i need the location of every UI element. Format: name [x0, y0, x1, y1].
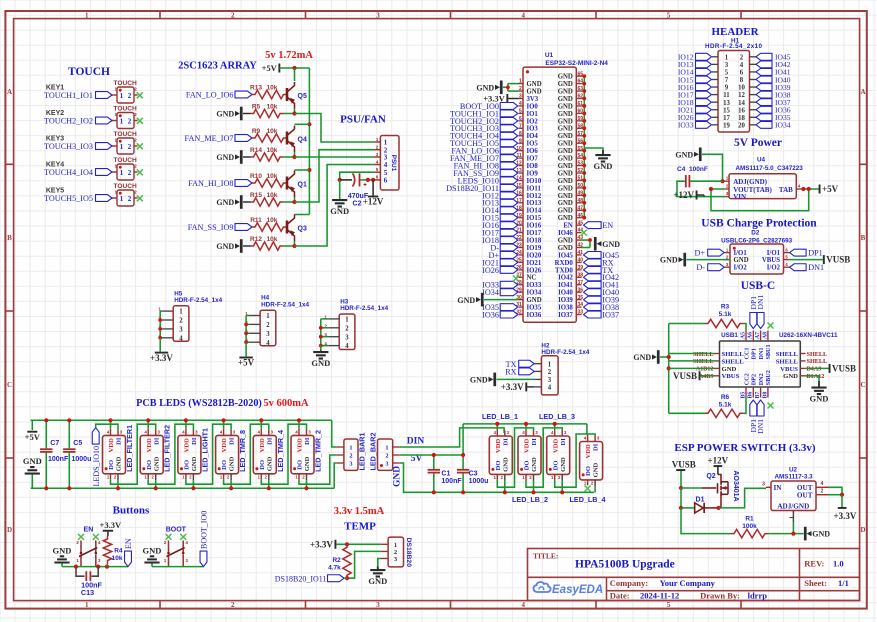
- net flag DN1 (D2 right): [790, 264, 807, 271]
- svg-text:U4: U4: [757, 157, 766, 164]
- svg-text:Sheet:: Sheet:: [804, 578, 827, 588]
- svg-text:PSU1: PSU1: [390, 155, 397, 172]
- wire +3.3V to DS18B20 pin1: [336, 543, 381, 545]
- no-connect X LED_LB_4 DO: [585, 486, 591, 492]
- svg-text:GND: GND: [558, 245, 573, 252]
- junction bus to Q4 collector: [307, 122, 311, 126]
- wire DO LED_TMR_4 to DI LED_TMR_2: [261, 424, 306, 484]
- svg-text:+3.3V: +3.3V: [310, 539, 333, 549]
- wire R5 to emitter: [283, 113, 295, 115]
- svg-text:A7: A7: [755, 332, 761, 339]
- wire DIN: [400, 428, 504, 447]
- svg-text:1: 1: [120, 92, 124, 100]
- svg-text:+3.3V: +3.3V: [150, 353, 173, 363]
- svg-text:1: 1: [85, 601, 89, 609]
- svg-text:1: 1: [266, 313, 270, 320]
- svg-text:8: 8: [519, 131, 522, 137]
- svg-text:C13: C13: [81, 588, 94, 597]
- svg-text:IO21: IO21: [527, 260, 542, 267]
- svg-text:TOUCH3_IO3: TOUCH3_IO3: [44, 142, 93, 151]
- svg-text:10k: 10k: [267, 236, 278, 243]
- junction emitter Q1: [292, 200, 296, 204]
- wire VDD LED_FILTER2 to +5V rail: [147, 420, 149, 429]
- svg-text:DO: DO: [259, 460, 266, 470]
- svg-text:5: 5: [667, 601, 671, 609]
- svg-text:2: 2: [345, 325, 349, 332]
- svg-text:IO26: IO26: [527, 267, 542, 274]
- svg-text:HDR-F-2.54_1x4: HDR-F-2.54_1x4: [174, 297, 222, 304]
- svg-text:C5: C5: [73, 440, 82, 447]
- svg-text:3: 3: [385, 460, 388, 467]
- svg-text:LED_BAR1: LED_BAR1: [358, 433, 367, 471]
- svg-text:3: 3: [266, 331, 270, 338]
- svg-text:3: 3: [519, 94, 522, 100]
- svg-text:3: 3: [376, 601, 380, 609]
- svg-text:+12V: +12V: [673, 190, 694, 200]
- svg-text:IO39: IO39: [558, 297, 573, 304]
- transistor Q1 2SC1623 NPN: [286, 177, 289, 190]
- svg-text:D: D: [860, 526, 865, 534]
- svg-text:EN: EN: [602, 221, 613, 230]
- power VUSB (D2): [823, 255, 825, 264]
- svg-text:REV:: REV:: [804, 559, 824, 569]
- svg-text:SHELL: SHELL: [693, 358, 714, 365]
- svg-text:1.0: 1.0: [833, 559, 844, 569]
- svg-text:D2: D2: [751, 230, 760, 237]
- svg-text:GND: GND: [527, 88, 542, 95]
- wire B1A12 to ground: [806, 376, 820, 381]
- svg-text:1: 1: [548, 361, 552, 368]
- wire bus to A1B12 GND pin: [667, 366, 671, 370]
- svg-text:VDD: VDD: [259, 438, 266, 453]
- svg-text:1: 1: [120, 117, 124, 125]
- wire R15 to emitter: [283, 201, 295, 203]
- svg-text:DN1: DN1: [808, 263, 824, 272]
- svg-text:EN: EN: [124, 538, 133, 549]
- svg-text:10: 10: [738, 85, 745, 92]
- LED LED_LIGHT1 WS2812B-2020: [178, 435, 201, 473]
- svg-text:DP1: DP1: [808, 249, 823, 258]
- svg-text:39: 39: [578, 265, 584, 271]
- svg-text:LED_LB_4: LED_LB_4: [570, 495, 606, 504]
- svg-text:B: B: [7, 234, 12, 242]
- capacitor C7 100nF: [45, 420, 47, 448]
- no-connect X BOOT top pins: [166, 534, 172, 540]
- LED LED_TMR_4 WS2812B-2020: [253, 435, 276, 473]
- svg-text:DS18B20: DS18B20: [405, 538, 412, 568]
- svg-text:GND: GND: [393, 466, 403, 487]
- net flag IO38 (U1 right): [584, 304, 602, 311]
- svg-text:SHELL: SHELL: [807, 358, 828, 365]
- svg-text:2: 2: [385, 452, 388, 459]
- svg-text:USB1: USB1: [721, 332, 738, 339]
- wire GND bottom rail (LED chain): [31, 487, 335, 489]
- svg-text:Buttons: Buttons: [113, 505, 150, 517]
- svg-text:GND: GND: [558, 96, 573, 103]
- svg-text:GND: GND: [216, 198, 234, 207]
- svg-text:C1: C1: [441, 471, 450, 478]
- wire VDD LED_LB_3 to rail: [554, 424, 556, 430]
- wire VBUS to VUSB: [790, 259, 823, 261]
- power +5V (transistor array): [278, 64, 280, 73]
- svg-text:LED_FILTER1: LED_FILTER1: [125, 425, 134, 472]
- svg-text:GND: GND: [602, 240, 620, 249]
- svg-text:5V Power: 5V Power: [734, 137, 782, 149]
- svg-text:VDD: VDD: [108, 438, 115, 453]
- net tag DN1 (USB-C top): [757, 313, 764, 329]
- svg-text:1: 1: [179, 309, 183, 316]
- H1 pin 5 flag IO14: [712, 71, 718, 73]
- svg-text:1: 1: [385, 444, 388, 451]
- svg-text:Q1: Q1: [298, 182, 307, 189]
- svg-text:DO: DO: [146, 460, 153, 470]
- svg-text:13: 13: [723, 100, 730, 107]
- net flag RX (U1 right): [584, 259, 602, 266]
- ground arrow (U1 right): [602, 150, 604, 155]
- power +12V (PSU/FAN): [372, 180, 374, 197]
- junction GND node C2: [338, 178, 342, 182]
- svg-text:6: 6: [740, 70, 744, 77]
- power +5V (H4): [239, 357, 252, 359]
- svg-text:DN1: DN1: [758, 347, 765, 359]
- svg-text:GND: GND: [783, 373, 798, 380]
- power VUSB (USB-C left): [699, 371, 701, 380]
- svg-text:100nF: 100nF: [689, 166, 708, 173]
- junction emitter Q5: [292, 111, 296, 115]
- svg-text:DI: DI: [531, 438, 538, 446]
- USB1 bottom pin stubs B5-B8: [745, 387, 747, 398]
- svg-text:2: 2: [519, 86, 522, 92]
- svg-text:C: C: [7, 381, 12, 389]
- GND flag (H2): [493, 373, 496, 387]
- power +3.3V (U2 output): [841, 495, 843, 507]
- svg-text:40: 40: [578, 258, 584, 264]
- svg-text:DI: DI: [560, 438, 567, 446]
- svg-text:GND: GND: [558, 178, 573, 185]
- power +12V (5V Power VIN): [696, 191, 698, 200]
- svg-text:GND: GND: [660, 256, 678, 265]
- svg-text:IO41: IO41: [558, 282, 573, 289]
- svg-text:IO9: IO9: [527, 170, 539, 177]
- svg-text:IO33: IO33: [527, 282, 542, 289]
- svg-text:GND: GND: [558, 103, 573, 110]
- svg-text:GND: GND: [368, 576, 387, 586]
- wire GND LED_TMR_8 to GND rail: [230, 480, 232, 488]
- wire GND LED_FILTER1 to GND rail: [117, 480, 119, 488]
- svg-text:5: 5: [667, 11, 671, 19]
- ground arrow (TEMP): [377, 567, 379, 571]
- wire VDD LED_FILTER1 to +5V rail: [110, 420, 112, 429]
- svg-text:HDR-F-2.54_1x4: HDR-F-2.54_1x4: [340, 305, 388, 312]
- wire DS18B20 pin2 loop: [347, 551, 381, 578]
- connector DS18B20: [388, 537, 403, 567]
- GND flag U1 pins 1-2: [500, 81, 503, 95]
- svg-text:GND: GND: [558, 88, 573, 95]
- svg-text:IO38: IO38: [558, 305, 573, 312]
- LED LED_LB_4 WS2812B-2020: [580, 442, 603, 480]
- GND flag at R5: [240, 107, 243, 121]
- svg-text:Company:: Company:: [610, 578, 648, 588]
- svg-text:DO: DO: [221, 460, 228, 470]
- svg-text:+5V: +5V: [822, 184, 839, 194]
- svg-text:Q3: Q3: [298, 226, 307, 233]
- wire GND LED_LIGHT1 to GND rail: [192, 480, 194, 488]
- svg-text:AMS1117-5.0_C347223: AMS1117-5.0_C347223: [736, 165, 804, 172]
- svg-text:NC: NC: [527, 275, 537, 282]
- svg-text:4: 4: [740, 62, 744, 69]
- svg-text:4: 4: [521, 601, 525, 609]
- svg-text:5.1k: 5.1k: [719, 311, 732, 318]
- GND flag (switch): [804, 527, 807, 541]
- svg-text:GND: GND: [23, 456, 42, 466]
- svg-text:3: 3: [548, 377, 552, 384]
- svg-text:Q2: Q2: [706, 473, 715, 480]
- svg-text:IO46: IO46: [558, 230, 573, 237]
- svg-text:1: 1: [120, 143, 124, 151]
- wire DO LED_LB_3 to DI LED_LB_4: [555, 434, 595, 487]
- svg-text:+5V: +5V: [238, 358, 255, 368]
- svg-text:DO: DO: [184, 460, 191, 470]
- svg-text:I/O2: I/O2: [767, 265, 781, 272]
- svg-text:9: 9: [519, 138, 522, 144]
- svg-text:6: 6: [384, 177, 388, 185]
- svg-text:IO14: IO14: [527, 208, 542, 215]
- svg-text:9: 9: [725, 85, 729, 92]
- USB1 left pin stubs: [715, 353, 720, 355]
- svg-text:ESP POWER SWITCH (3.3v): ESP POWER SWITCH (3.3v): [674, 442, 816, 454]
- wire R6 to CC2: [743, 398, 746, 414]
- svg-text:FAN_SS_IO9: FAN_SS_IO9: [188, 223, 234, 232]
- svg-text:GND: GND: [558, 185, 573, 192]
- svg-text:GND: GND: [722, 366, 737, 373]
- H1 pin 3 flag IO13: [712, 63, 718, 65]
- svg-text:DP1: DP1: [751, 348, 758, 359]
- wire emitter Q3 down: [294, 241, 296, 246]
- svg-text:DI: DI: [191, 437, 198, 445]
- svg-text:OUT: OUT: [797, 492, 813, 500]
- svg-text:TXD0: TXD0: [555, 267, 573, 274]
- svg-text:TOUCH2_IO2: TOUCH2_IO2: [44, 117, 93, 126]
- svg-text:+3.3V: +3.3V: [99, 520, 121, 530]
- junction +5V at Q5 collector drop: [292, 66, 296, 70]
- wire emitter Q4 down: [294, 152, 296, 157]
- H1 pin 2 flag IO45: [750, 56, 757, 58]
- GND flag U1 pins IO46/GND rows: [582, 239, 591, 241]
- LED LED_FILTER2 WS2812B-2020: [140, 435, 163, 473]
- svg-text:ADJ(GND): ADJ(GND): [733, 178, 767, 186]
- U1 right pin stubs and internal labels: [576, 75, 581, 77]
- svg-text:DO: DO: [297, 460, 304, 470]
- svg-text:GND: GND: [734, 257, 749, 264]
- LED LED_TMR_8 WS2812B-2020: [216, 435, 239, 473]
- capacitor C5 1000u: [68, 420, 70, 448]
- svg-text:3: 3: [349, 460, 352, 467]
- svg-text:5: 5: [519, 109, 522, 115]
- LED LED_FILTER1 WS2812B-2020: [103, 435, 126, 473]
- svg-text:GND: GND: [216, 242, 234, 251]
- svg-text:SHELL: SHELL: [776, 358, 799, 365]
- svg-text:LED_BAR2: LED_BAR2: [368, 433, 377, 471]
- junction +12V tap: [366, 178, 370, 182]
- svg-text:C: C: [860, 381, 865, 389]
- GND flag (LED rail): [31, 475, 33, 489]
- net flag IO39 (U1 right): [584, 296, 602, 303]
- svg-text:GND: GND: [558, 237, 573, 244]
- svg-text:IO7: IO7: [527, 156, 539, 163]
- wire VDD LED_TMR_8 to +5V rail: [223, 420, 225, 429]
- wire +5V rail to LED_BAR1 pin 1: [332, 420, 337, 447]
- svg-text:5v 1.72mA: 5v 1.72mA: [265, 50, 313, 61]
- H1 pin 1 flag IO12: [712, 56, 718, 58]
- svg-text:+3.3V: +3.3V: [834, 511, 857, 521]
- wire R3 left to GND bus: [669, 323, 705, 325]
- net tag EN (buttons): [125, 551, 132, 567]
- svg-text:1: 1: [120, 195, 124, 203]
- wire bus to Q3 collector: [295, 214, 310, 216]
- svg-text:VIN: VIN: [733, 193, 746, 201]
- svg-text:2024-11-12: 2024-11-12: [640, 591, 679, 601]
- ground arrow (PSU/FAN): [339, 180, 341, 200]
- svg-text:1: 1: [349, 444, 352, 451]
- svg-text:2: 2: [128, 143, 132, 151]
- GND flag at R14: [240, 150, 243, 164]
- svg-text:+5V: +5V: [262, 63, 278, 73]
- svg-text:DO: DO: [495, 461, 502, 471]
- svg-text:LED_TMR_2: LED_TMR_2: [314, 430, 323, 472]
- svg-text:37: 37: [578, 280, 584, 286]
- svg-text:4: 4: [548, 385, 552, 392]
- wire GND bus to ground arrow: [584, 148, 603, 150]
- H1 pin 14 flag IO37: [750, 101, 757, 103]
- svg-text:LED_TMR_4: LED_TMR_4: [276, 430, 285, 472]
- net tag DN1 (USB-C bottom): [757, 400, 764, 416]
- svg-text:IO42: IO42: [558, 275, 573, 282]
- svg-text:GND: GND: [558, 111, 573, 118]
- wire R12 to emitter: [283, 245, 295, 247]
- wire +5V to collector bus: [279, 67, 309, 69]
- svg-text:GND: GND: [558, 118, 573, 125]
- svg-text:A5: A5: [740, 332, 746, 339]
- svg-text:Your Company: Your Company: [660, 578, 716, 588]
- ground arrow (USB-C right): [818, 381, 820, 388]
- svg-text:GND: GND: [558, 193, 573, 200]
- svg-text:2: 2: [266, 322, 270, 329]
- wire DO LED_TMR_8 to DI LED_TMR_4: [224, 424, 269, 484]
- svg-text:TITLE:: TITLE:: [533, 552, 558, 561]
- wire H4 pin bus: [246, 315, 249, 317]
- svg-text:D-: D-: [696, 263, 705, 272]
- svg-text:A: A: [7, 88, 12, 96]
- svg-text:DO: DO: [524, 461, 531, 471]
- svg-text:3: 3: [179, 327, 183, 334]
- svg-text:DN2: DN2: [758, 373, 765, 385]
- svg-text:R4: R4: [114, 548, 123, 555]
- power +3.3V (H2): [525, 382, 527, 391]
- wire LEDS_IO10 to LED_FILTER1 DI: [96, 424, 118, 430]
- svg-text:U262-16XN-4BVC11: U262-16XN-4BVC11: [779, 332, 838, 339]
- svg-text:IO16: IO16: [527, 223, 542, 230]
- svg-text:1: 1: [345, 317, 349, 324]
- svg-text:3V3: 3V3: [527, 96, 539, 103]
- svg-text:7: 7: [519, 123, 522, 129]
- svg-text:VDD: VDD: [221, 438, 228, 453]
- svg-text:VUSB: VUSB: [826, 255, 850, 265]
- svg-text:R6: R6: [721, 394, 730, 401]
- svg-text:FAN_LO_IO6: FAN_LO_IO6: [186, 91, 234, 100]
- svg-text:DIN: DIN: [407, 436, 425, 446]
- svg-text:IO34: IO34: [775, 121, 791, 130]
- svg-text:I/O1: I/O1: [767, 250, 781, 257]
- net tag DP1 (USB-C top): [750, 313, 757, 329]
- svg-text:BOOT_IO0: BOOT_IO0: [199, 511, 208, 549]
- svg-text:4: 4: [521, 11, 525, 19]
- H1 pin 15 flag IO21: [712, 109, 718, 111]
- svg-text:A8: A8: [762, 332, 768, 339]
- power VUSB (USB-C right): [829, 364, 831, 373]
- svg-text:FAN_ME_IO7: FAN_ME_IO7: [185, 134, 234, 143]
- svg-text:1: 1: [394, 542, 397, 549]
- H1 pin 13 flag IO18: [712, 101, 718, 103]
- junction VUSB node: [679, 486, 683, 490]
- net tag BOOT_IO0: [200, 551, 207, 567]
- U1 left pin stubs and internal labels: [519, 83, 524, 85]
- svg-text:IO34: IO34: [482, 288, 499, 297]
- svg-text:IO26: IO26: [482, 266, 499, 275]
- svg-text:35: 35: [578, 295, 584, 301]
- H1 pin 10 flag IO39: [750, 86, 757, 88]
- wire 5V line: [400, 454, 463, 456]
- svg-text:8: 8: [740, 77, 744, 84]
- wire GND LED_TMR_4 to GND rail: [268, 480, 270, 488]
- wire Q5 emitter to PSU1 pin 1: [295, 114, 375, 143]
- svg-text:C4: C4: [677, 166, 686, 173]
- svg-text:11: 11: [723, 92, 730, 99]
- svg-text:2SC1623 ARRAY: 2SC1623 ARRAY: [178, 61, 257, 72]
- H1 pin 19 flag IO33: [712, 124, 718, 126]
- svg-text:VDD: VDD: [552, 438, 559, 453]
- svg-text:2: 2: [128, 117, 132, 125]
- svg-text:6: 6: [519, 116, 522, 122]
- capacitor C3 1000u: [462, 424, 464, 469]
- svg-text:A1B12: A1B12: [696, 366, 714, 373]
- svg-text:VUSB: VUSB: [672, 459, 696, 469]
- svg-text:U2: U2: [789, 467, 798, 474]
- H1 pin 18 flag IO35: [750, 116, 757, 118]
- svg-text:2: 2: [231, 11, 235, 19]
- svg-text:IO12: IO12: [527, 193, 542, 200]
- svg-text:R13: R13: [250, 85, 262, 92]
- svg-text:U1: U1: [545, 52, 554, 59]
- svg-text:IO1: IO1: [527, 111, 539, 118]
- svg-text:GND: GND: [191, 456, 198, 471]
- no-connect X U1 NC pin: [513, 276, 519, 282]
- no-connect X on KEY3 pin 2: [137, 143, 143, 149]
- svg-text:4: 4: [179, 335, 183, 342]
- wire VDD LED_TMR_2 to +5V rail: [298, 420, 300, 429]
- wire Q3 emitter to PSU1 pin 4: [295, 165, 375, 247]
- svg-text:I/O1: I/O1: [734, 250, 748, 257]
- svg-text:4: 4: [519, 101, 522, 107]
- junction VOUT: [709, 187, 713, 191]
- svg-text:TOUCH: TOUCH: [68, 66, 110, 78]
- wire GND rail to LED_BAR1 pin 3: [334, 463, 337, 488]
- svg-text:C7: C7: [50, 440, 59, 447]
- svg-text:D1: D1: [696, 497, 705, 504]
- svg-text:GND: GND: [116, 456, 123, 471]
- svg-text:GND: GND: [527, 297, 542, 304]
- svg-text:GND: GND: [810, 394, 829, 404]
- svg-text:GND: GND: [558, 133, 573, 140]
